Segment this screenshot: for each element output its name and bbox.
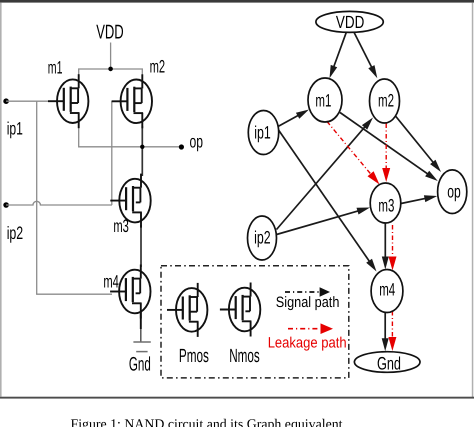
node ip2 terminal dot [3, 202, 9, 208]
legend Pmos symbol [167, 283, 207, 337]
node VDD junction dot [108, 67, 113, 72]
svg-text:ip1: ip1 [254, 122, 271, 142]
wire m4 gate horizontal [36, 293, 112, 295]
svg-text:m2: m2 [378, 91, 394, 111]
leakage edge m4->Gnd [388, 311, 396, 351]
graph node m2 [370, 79, 400, 123]
edge m3->m4 [382, 223, 389, 269]
svg-text:Pmos: Pmos [179, 346, 209, 367]
svg-text:m3: m3 [113, 216, 128, 236]
svg-text:Gnd: Gnd [129, 354, 151, 376]
edge m1->op [340, 113, 438, 182]
wire VDD stem [110, 43, 112, 70]
frame bottom rule [0, 397, 474, 399]
svg-text:m4: m4 [379, 280, 395, 300]
wire m4 source lead [140, 311, 142, 329]
edge ip2->m3 [277, 208, 371, 235]
graph node op [438, 170, 467, 214]
legend Nmos symbol [220, 283, 260, 337]
svg-text:m1: m1 [315, 91, 331, 111]
svg-text:VDD: VDD [96, 22, 124, 44]
edge VDD->m2 [354, 32, 377, 78]
wire m2 drain down through op node to m3 drain [141, 126, 143, 176]
wire m4 source to ground [140, 316, 142, 342]
graph node ip1 [248, 111, 278, 155]
graph node m3 [370, 183, 401, 223]
svg-text:op: op [447, 182, 461, 202]
wire m3 source to m4 drain [140, 225, 142, 267]
wire m1 drain to op [79, 126, 182, 147]
legend dashed box [161, 266, 349, 378]
svg-text:VDD: VDD [336, 12, 364, 32]
edge ip1->m4 [278, 129, 377, 272]
svg-text:m4: m4 [103, 271, 119, 291]
svg-text:ip1: ip1 [7, 119, 23, 139]
graph node VDD [316, 11, 383, 32]
frame left border [0, 3, 2, 397]
graph node ip2 [248, 216, 277, 260]
transistor m3 (NMOS) [110, 174, 150, 228]
svg-text:ip2: ip2 [254, 228, 271, 248]
wire ip1 to m1 gate [6, 100, 49, 102]
svg-text:Leakage path: Leakage path [268, 335, 347, 352]
edge m4->Gnd [382, 313, 389, 352]
legend signal path arrow [285, 287, 330, 297]
leakage edge m2->m3 [382, 124, 390, 183]
svg-text:Nmos: Nmos [229, 346, 260, 367]
frame top bar [0, 0, 474, 3]
frame right border [472, 3, 474, 398]
node op terminal dot [179, 144, 184, 149]
svg-text:m2: m2 [150, 56, 166, 76]
graph node m1 [308, 78, 342, 122]
svg-text:op: op [190, 132, 204, 152]
graph node Gnd [354, 352, 420, 373]
legend leakage path arrow [288, 323, 333, 334]
edge m3->op [401, 195, 437, 203]
graph node m4 [371, 270, 403, 313]
svg-text:ip2: ip2 [7, 223, 24, 243]
wire ip2 up to m2 gate [111, 101, 113, 205]
svg-text:Signal path: Signal path [276, 294, 340, 311]
node ip1 terminal dot [3, 98, 9, 104]
svg-text:m1: m1 [48, 58, 63, 78]
leakage edge m3->m4 [389, 225, 397, 271]
transistor m1 (PMOS) [48, 74, 88, 128]
node op junction dot [140, 145, 144, 149]
edge ip2->m2 [277, 118, 374, 230]
svg-text:m3: m3 [378, 195, 394, 215]
transistor m4 (NMOS) [110, 265, 150, 319]
ground symbol [133, 342, 150, 352]
wire VDD rail [79, 69, 143, 75]
edge m2->op [396, 116, 442, 172]
wire ip2 with crossover hop [6, 201, 112, 205]
edge ip1->m1 [278, 110, 309, 127]
transistor m2 (PMOS) [112, 74, 152, 128]
wire ip1 branch down to m4 gate [36, 101, 38, 294]
leakage edge m1->m3 [327, 122, 380, 185]
svg-text:Figure 1: NAND circuit and its: Figure 1: NAND circuit and its Graph equ… [71, 418, 343, 428]
svg-text:Gnd: Gnd [377, 354, 401, 374]
edge VDD->m1 [330, 32, 347, 78]
